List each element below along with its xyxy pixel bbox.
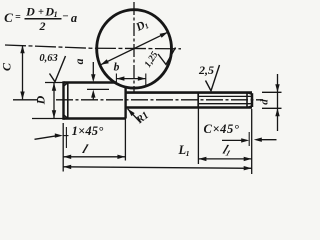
cylinder bottom extension left: [32, 118, 64, 120]
extension line thread start: [197, 108, 199, 165]
dimension b line: [116, 78, 145, 80]
label l1: [220, 142, 234, 158]
rod top line: [126, 91, 252, 94]
dimension d line: [277, 74, 279, 131]
svg-text:+: +: [38, 7, 44, 18]
cylinder chamfer diagonals: [64, 82, 69, 86]
dimension D1 diagonal line: [101, 32, 168, 65]
dimension C line: [22, 46, 24, 100]
rod end face: [251, 93, 254, 107]
cylinder chamfer line: [67, 83, 69, 119]
fillet leader R1: [128, 109, 141, 123]
cylinder right step face: [124, 87, 126, 119]
svg-text:b: b: [114, 62, 120, 74]
svg-text:C: C: [0, 62, 14, 71]
extension line step: [124, 119, 126, 161]
ball head circle D1: [97, 10, 172, 88]
main axis centerline: [56, 99, 263, 101]
svg-text:a: a: [74, 58, 86, 64]
svg-text:a: a: [71, 11, 77, 25]
roughness mark 2,5: [206, 65, 220, 91]
svg-text:D: D: [25, 5, 35, 19]
thread minor diameter lines: [198, 95, 251, 97]
dimension l line: [63, 156, 125, 158]
svg-text:C×45°: C×45°: [204, 122, 240, 136]
thread start line: [197, 93, 199, 108]
rod end chamfer line: [246, 93, 248, 108]
dimension l1 line: [198, 158, 251, 160]
dimension L1 line: [63, 167, 252, 169]
chamfer Cx45 dimension: [222, 139, 244, 141]
roughness mark 0,63: [50, 56, 66, 82]
cylinder left face: [62, 81, 64, 120]
svg-text:1×45°: 1×45°: [72, 124, 104, 138]
label l: [81, 141, 91, 155]
svg-text:d: d: [259, 99, 271, 105]
extension line rod end: [251, 109, 253, 174]
rod bottom line: [126, 106, 252, 109]
roughness mark 1,25: [158, 48, 176, 65]
dimension a arrows: [92, 62, 94, 78]
svg-text:=: =: [15, 12, 21, 23]
cylinder top extension left: [45, 82, 64, 84]
svg-text:2: 2: [39, 19, 46, 33]
ball vertical centerline: [133, 2, 135, 92]
svg-text:2,5: 2,5: [198, 63, 214, 77]
svg-text:0,63: 0,63: [39, 53, 57, 64]
svg-text:D: D: [34, 95, 48, 105]
svg-text:−: −: [62, 11, 68, 23]
cylinder bottom line: [64, 117, 127, 120]
cylinder top line: [64, 81, 117, 84]
rod end chamfer diagonals: [247, 93, 252, 95]
chamfer 1x45 dimension: [35, 136, 57, 140]
ball horizontal centerline / C top extension: [5, 45, 181, 49]
dimension D line: [53, 83, 55, 118]
svg-text:C: C: [4, 10, 13, 25]
extension line left face: [62, 123, 64, 172]
